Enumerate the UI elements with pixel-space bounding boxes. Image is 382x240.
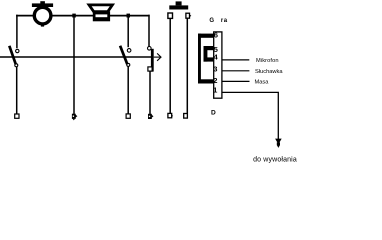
speaker LS1 (earpiece) xyxy=(89,5,112,21)
wire from S2 pivot down to terminal T3 xyxy=(127,66,129,114)
svg-text:do wywołania: do wywołania xyxy=(253,157,297,164)
node junction dot B on top bus xyxy=(127,14,131,18)
terminal T5 (open square) xyxy=(168,113,173,117)
microphone M1 xyxy=(32,1,53,26)
contact flag under cradle right xyxy=(186,13,191,18)
jack J1 bottom contact square xyxy=(148,67,152,71)
svg-text:ra: ra xyxy=(221,18,228,24)
jack J1 vertical contact bar xyxy=(151,49,154,72)
svg-text:2: 2 xyxy=(213,76,217,85)
wire from jack J1 down to terminal T4 xyxy=(149,71,151,114)
wire from S1 pivot down to terminal T1 xyxy=(16,67,18,114)
jack J1 top contact circle xyxy=(148,47,152,51)
wire cradle left down to terminal T5 xyxy=(169,18,171,113)
connector pin numbers xyxy=(213,30,219,94)
wire pin3 to Sluchawka xyxy=(222,70,250,72)
wire common horizontal line xyxy=(0,56,152,58)
wire vertical from node B down to switch S2 contact xyxy=(127,16,129,48)
svg-text:Słuchawka: Słuchawka xyxy=(255,69,283,75)
svg-text:Mikrofon: Mikrofon xyxy=(256,58,279,64)
node junction dot A on top bus xyxy=(72,14,76,18)
switch S1 (left hook switch) xyxy=(9,46,19,67)
contact square under cradle left xyxy=(168,13,173,18)
terminal T3 (open square) xyxy=(126,114,130,118)
connector X1 body xyxy=(214,32,222,98)
svg-text:Masa: Masa xyxy=(255,79,270,85)
terminal T6 (open square) xyxy=(184,114,188,119)
wire cradle right down to terminal T6 xyxy=(186,18,188,113)
strap pin6 to pin2 (outer bracket) xyxy=(198,34,214,84)
strap pin5 to pin4 (inner bracket) xyxy=(204,46,214,62)
wire pin4 to Mikrofon xyxy=(222,59,249,61)
terminal T2 (plug pin) xyxy=(72,114,78,121)
arrow actuation direction xyxy=(154,53,161,60)
label Gora (top) xyxy=(209,18,227,24)
svg-text:G: G xyxy=(209,18,214,24)
svg-text:D: D xyxy=(211,110,216,117)
switch S2 (right hook switch) xyxy=(120,46,131,67)
wire pin1 to ringer xyxy=(222,92,278,139)
wire vertical from node A down to terminal T2 xyxy=(73,16,75,115)
wire pin2 to Masa xyxy=(222,80,250,82)
svg-text:6: 6 xyxy=(214,30,218,39)
terminal T4 (plug pin) xyxy=(148,114,154,119)
svg-text:3: 3 xyxy=(213,65,217,74)
wire top-right corner down to jack contact xyxy=(148,15,150,47)
terminal T1 (open square) xyxy=(15,114,19,118)
wire left drop from top bus to switch S1 xyxy=(16,15,18,49)
hook cradle symbol (T bar) xyxy=(169,1,188,9)
arrowhead to ringer xyxy=(275,139,282,148)
wire top horizontal bus xyxy=(16,15,150,17)
